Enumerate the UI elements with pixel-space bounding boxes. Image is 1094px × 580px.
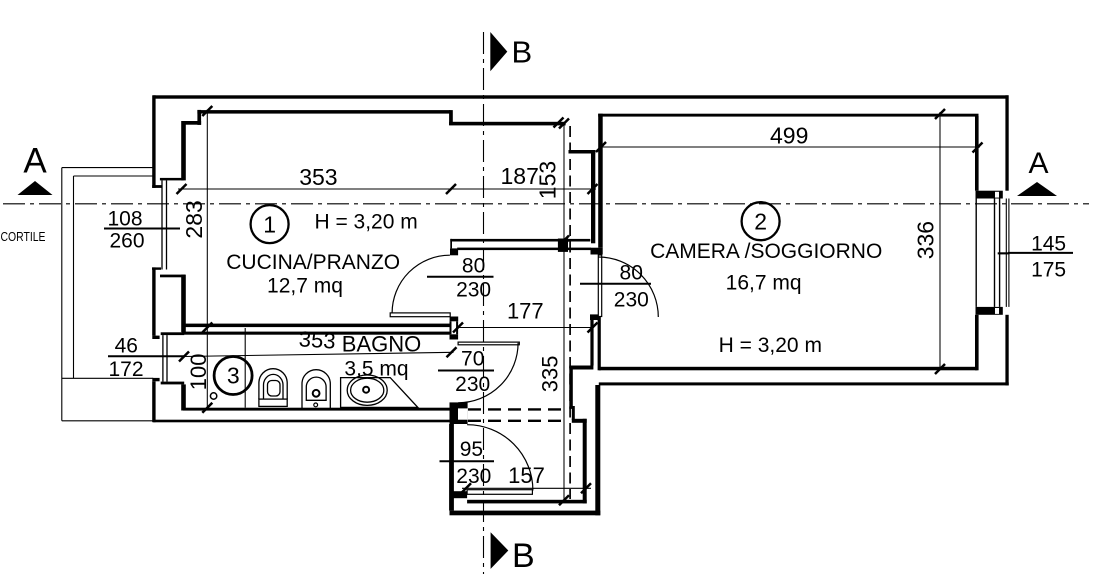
- svg-text:172: 172: [108, 358, 143, 381]
- wall camera bottom inner face: [599, 367, 978, 371]
- wall outer top face: [153, 95, 1008, 98]
- leader bar 70/230: [438, 370, 494, 372]
- tick dim157 right: [581, 483, 591, 493]
- wall hallway bottom: [569, 366, 593, 370]
- tick bagno353 left: [179, 352, 189, 362]
- svg-text:100: 100: [186, 354, 211, 391]
- room number circle 2: [742, 202, 780, 240]
- svg-text:230: 230: [614, 289, 649, 312]
- door D1 swing arc: [392, 255, 450, 313]
- svg-text:499: 499: [770, 123, 808, 149]
- wall cucina west inner face mid: [181, 275, 186, 333]
- svg-text:H = 3,20 m: H = 3,20 m: [314, 211, 417, 234]
- wall vestibule left face: [449, 424, 454, 511]
- room number circle 3: [214, 357, 252, 395]
- svg-text:H = 3,20 m: H = 3,20 m: [719, 334, 822, 357]
- toilet tank: [259, 399, 287, 406]
- toilet flush: [268, 381, 281, 397]
- window W2 glazing line 1: [162, 335, 164, 382]
- sink basin inner ellipse: [351, 378, 384, 402]
- wall cucina top: [197, 110, 450, 114]
- leader bar 80/230 right: [580, 283, 651, 285]
- tick dim499 left: [596, 142, 606, 152]
- cortile boundary top line inner: [74, 175, 154, 177]
- dim line bagno 353: [184, 352, 454, 356]
- wall vestibule step v2: [572, 406, 575, 420]
- door D2 swing arc: [598, 257, 658, 317]
- svg-text:1: 1: [263, 211, 276, 237]
- leader bar 46/172: [108, 355, 185, 357]
- window W3 top jamb: [976, 191, 1003, 199]
- wall bagno west inner face lower: [181, 384, 186, 410]
- wall vestibule right outer face: [595, 385, 600, 515]
- tick dim187 right: [588, 184, 598, 194]
- wall camera east inner face lower: [975, 315, 979, 371]
- tick dim353 left: [177, 184, 187, 194]
- window W1 head bar: [152, 185, 162, 188]
- wall camera top: [598, 114, 978, 117]
- tick dim336 top: [935, 109, 945, 119]
- wall outer right face upper: [1005, 95, 1008, 190]
- tick dim153 bottom: [559, 236, 569, 246]
- svg-text:335: 335: [537, 356, 562, 393]
- wall vestibule bottom outer face: [450, 511, 601, 516]
- window W3 glazing line 2: [999, 199, 1001, 307]
- dim line 153+335 vertical: [563, 124, 565, 501]
- section marker B bottom triangle: [491, 532, 509, 569]
- svg-text:260: 260: [109, 230, 144, 253]
- window W3 glazing line 1: [994, 199, 996, 307]
- svg-text:BAGNO: BAGNO: [342, 332, 421, 357]
- svg-text:230: 230: [456, 279, 491, 302]
- window W3 outer edge line 2: [1008, 199, 1010, 307]
- wall bagno north face2: [182, 332, 450, 335]
- svg-text:353: 353: [298, 326, 336, 354]
- svg-text:46: 46: [115, 335, 138, 358]
- cortile boundary bottom line: [62, 420, 153, 422]
- bagno door stop dot: [210, 393, 216, 399]
- wall hallway west face lower: [590, 320, 593, 366]
- svg-text:CORTILE: CORTILE: [1, 230, 46, 244]
- window W1 glazing line 2: [166, 180, 168, 269]
- window W1 glazing line 1: [161, 180, 163, 269]
- window W3 outer edge line 1: [1005, 199, 1007, 307]
- svg-text:153: 153: [535, 161, 561, 199]
- svg-text:12,7 mq: 12,7 mq: [267, 275, 343, 298]
- dim line 353+187 horizontal: [178, 188, 596, 190]
- wall outer left face middle: [152, 267, 155, 335]
- tick dim100 bottom: [202, 403, 212, 413]
- wall camera west face lower: [598, 317, 601, 370]
- toilet bowl outer: [259, 369, 287, 399]
- svg-text:B: B: [511, 34, 532, 69]
- window W2 sill reveal: [161, 382, 185, 385]
- door D4 swing arc: [467, 425, 533, 491]
- window W2 head bar: [152, 336, 159, 339]
- door D1 leaf: [390, 313, 450, 317]
- section marker A left triangle: [18, 181, 53, 195]
- room number circle 1: [251, 205, 289, 243]
- dim line 157: [462, 487, 591, 489]
- door D4 leaf: [467, 490, 532, 495]
- wall vestibule step v1: [569, 367, 573, 409]
- wall bagno south inner face: [183, 408, 458, 411]
- door D2 leaf: [598, 255, 601, 317]
- svg-text:80: 80: [620, 262, 643, 285]
- bidet outer: [302, 370, 330, 409]
- tick dim177 left: [453, 323, 463, 333]
- wall cucina nw step vertical: [197, 110, 201, 125]
- cortile boundary left line inner: [73, 176, 75, 378]
- wall hallway west face upper: [591, 150, 595, 243]
- window W1 sill reveal: [160, 275, 185, 278]
- dim line 499: [599, 146, 980, 148]
- door D4 jamb notch: [458, 408, 468, 419]
- section line A-A horizontal dash-dot: [3, 203, 1089, 205]
- svg-text:3,5 mq: 3,5 mq: [344, 358, 408, 381]
- wall vestibule step horizontal: [572, 419, 587, 423]
- wall bagno east face a: [450, 321, 452, 334]
- door D3 swing arc: [458, 343, 518, 403]
- door D2 top jamb: [591, 248, 603, 255]
- door D3 leaf: [458, 342, 519, 345]
- door D1 hinge jamb: [450, 317, 459, 322]
- window W1 head reveal: [160, 178, 184, 181]
- wall cucina nw step horizontal: [182, 121, 202, 125]
- wall camera bottom outer face: [599, 382, 1009, 385]
- svg-text:CAMERA /SOGGIORNO: CAMERA /SOGGIORNO: [650, 240, 882, 263]
- door D2 bottom jamb: [590, 314, 599, 320]
- dim line 336 vertical: [939, 112, 941, 371]
- tick dim283/100 shared: [202, 323, 212, 333]
- svg-text:80: 80: [462, 255, 485, 278]
- cortile boundary top line outer: [62, 167, 153, 169]
- tick bagno353 right: [447, 347, 457, 357]
- tick at wall end (187 aux): [554, 118, 564, 128]
- dashed wall line lower (vestibule opening): [468, 420, 568, 422]
- svg-text:230: 230: [455, 373, 490, 396]
- svg-text:2: 2: [754, 208, 767, 234]
- window W2 sill bar: [152, 378, 159, 381]
- section marker A right triangle: [1017, 182, 1057, 196]
- svg-text:108: 108: [107, 208, 142, 231]
- leader bar 80/230 left: [427, 276, 494, 278]
- svg-text:A: A: [23, 142, 47, 181]
- wall bagno north face1: [182, 324, 450, 328]
- wall vestibule bottom inner face: [467, 500, 587, 504]
- window W3 top jamb slit: [995, 192, 999, 198]
- svg-text:B: B: [512, 537, 535, 575]
- bidet inner: [306, 377, 326, 400]
- dashed hallway opening line vertical: [569, 126, 571, 499]
- svg-text:3: 3: [227, 363, 240, 389]
- door D3 top jamb: [450, 334, 459, 339]
- svg-text:177: 177: [507, 299, 544, 324]
- wall outer bottom left (bagno south outer face): [153, 420, 458, 423]
- wall cucina-hall north face: [450, 239, 590, 242]
- wall cucina top east segment: [449, 122, 565, 126]
- tick dim335 top: [559, 240, 569, 250]
- leader bar 108/260: [104, 228, 180, 230]
- bidet drain dot: [314, 403, 318, 407]
- window W3 bottom jamb slit: [995, 308, 999, 314]
- sink faucet: [363, 387, 369, 393]
- svg-text:CUCINA/PRANZO: CUCINA/PRANZO: [226, 251, 400, 274]
- window W3 inner edge line: [975, 199, 977, 307]
- svg-text:70: 70: [461, 348, 484, 371]
- leader bar 95/230: [440, 460, 495, 462]
- section line B-B vertical dash-dot: [483, 32, 485, 574]
- sink basin outer ellipse: [347, 375, 387, 405]
- tick dim153 top: [559, 119, 569, 129]
- section marker B top triangle: [490, 32, 507, 71]
- window W3 mullion bar: [998, 252, 1010, 254]
- window W2 glazing line 2: [166, 335, 168, 382]
- door D4 hinge block: [450, 491, 467, 498]
- wall camera west face upper: [598, 114, 603, 248]
- dim line 283+100 vertical: [206, 110, 208, 410]
- toilet bowl inner: [264, 374, 284, 399]
- tick dim499 right: [973, 143, 983, 153]
- wall pillar block at hallway opening: [558, 239, 568, 252]
- tick dim336 bottom: [935, 364, 945, 374]
- cortile boundary left line outer: [61, 168, 63, 421]
- bagno divider line: [244, 328, 246, 408]
- bidet faucet ring: [313, 390, 320, 397]
- dim line 177: [456, 327, 594, 329]
- svg-text:175: 175: [1031, 259, 1066, 282]
- sink counter: [341, 378, 418, 408]
- svg-text:95: 95: [460, 438, 483, 461]
- tick dim157 left: [461, 483, 471, 493]
- wall outer left face lower: [152, 381, 155, 422]
- window W1 sill bar: [152, 267, 161, 269]
- wall cucina ne step vertical: [449, 110, 453, 125]
- svg-text:145: 145: [1031, 233, 1066, 256]
- dashed wall line upper (vestibule opening): [468, 408, 568, 410]
- tick dim335 bottom: [559, 495, 569, 505]
- wall cucina west inner face upper: [181, 121, 186, 180]
- door D4 top jamb block: [450, 402, 468, 424]
- wall camera east inner face upper: [975, 116, 979, 191]
- svg-text:353: 353: [299, 164, 337, 190]
- wall outer right face lower: [1005, 315, 1008, 386]
- svg-text:187: 187: [501, 163, 539, 189]
- wall bagno east face b: [456, 321, 458, 334]
- tick dim353/187 shared: [446, 184, 456, 194]
- svg-text:336: 336: [913, 221, 939, 259]
- tick dim283 top: [202, 106, 212, 116]
- tick dim177 right: [588, 323, 598, 333]
- svg-text:230: 230: [456, 465, 491, 488]
- window W3 bottom jamb: [976, 307, 1003, 315]
- wall outer left face upper: [152, 95, 155, 188]
- svg-text:157: 157: [508, 463, 545, 488]
- wall cucina-hall south face: [457, 248, 591, 251]
- svg-text:16,7 mq: 16,7 mq: [726, 272, 802, 295]
- wall cucina-hall west end cap: [450, 239, 452, 249]
- window W2 head reveal: [161, 332, 185, 335]
- svg-text:A: A: [1028, 147, 1048, 180]
- door D1 top jamb: [450, 248, 458, 255]
- leader bar 145/175: [1008, 252, 1073, 254]
- cortile boundary mid horizontal: [62, 377, 153, 379]
- wall hallway step horizontal: [569, 150, 596, 154]
- svg-text:283: 283: [181, 200, 207, 238]
- wall vestibule right inner face: [583, 419, 587, 504]
